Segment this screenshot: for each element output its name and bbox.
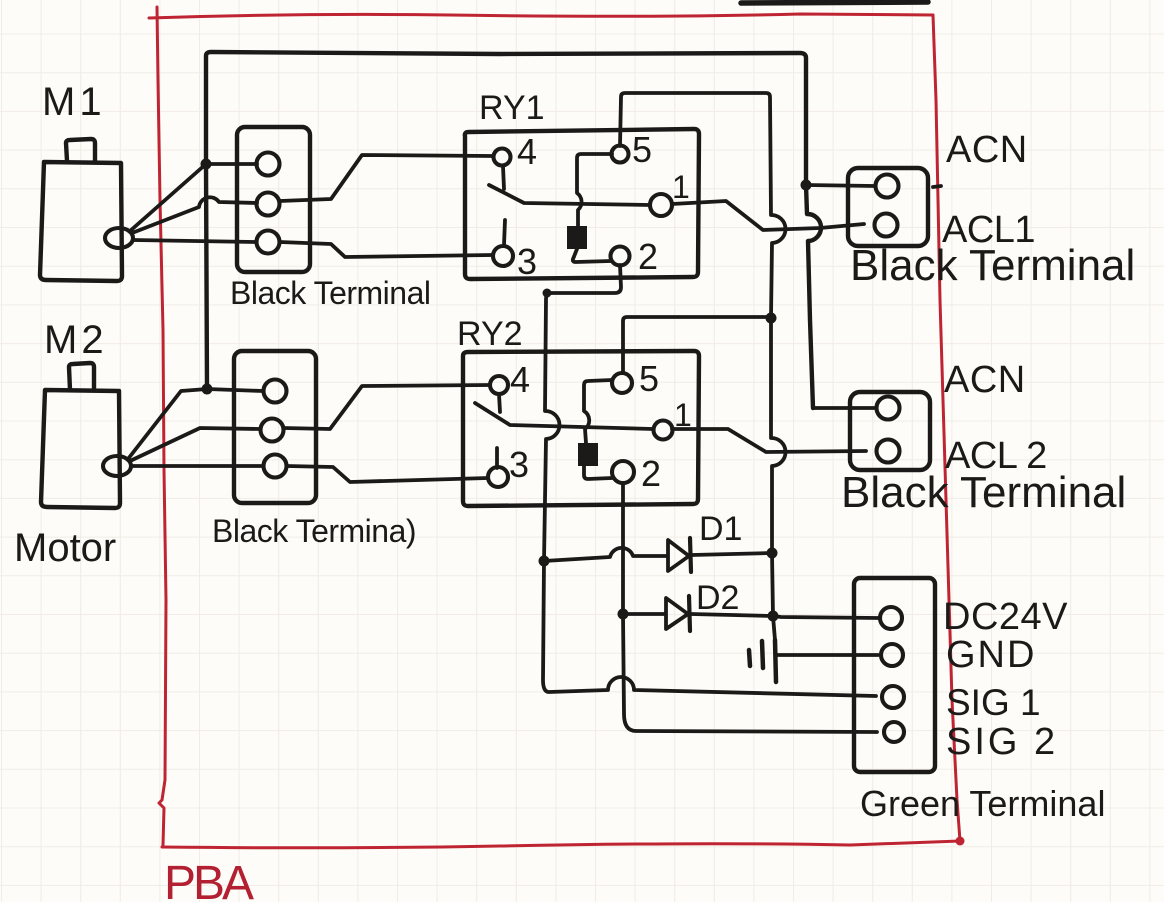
svg-text:D1: D1 bbox=[699, 510, 742, 548]
svg-text:4: 4 bbox=[517, 131, 537, 172]
svg-text:3: 3 bbox=[517, 241, 537, 282]
svg-text:Motor: Motor bbox=[14, 526, 116, 570]
svg-text:M2: M2 bbox=[44, 318, 108, 362]
svg-text:RY2: RY2 bbox=[457, 315, 523, 353]
svg-text:D2: D2 bbox=[696, 579, 739, 617]
svg-text:Green Terminal: Green Terminal bbox=[860, 783, 1105, 824]
svg-text:4: 4 bbox=[510, 359, 530, 400]
svg-text:ACN: ACN bbox=[946, 129, 1028, 171]
svg-text:1: 1 bbox=[672, 169, 690, 205]
svg-text:SIG 2: SIG 2 bbox=[946, 721, 1058, 763]
svg-text:2: 2 bbox=[641, 453, 661, 494]
svg-text:3: 3 bbox=[509, 444, 529, 485]
svg-text:DC24V: DC24V bbox=[943, 596, 1068, 638]
svg-text:ACN: ACN bbox=[944, 359, 1026, 401]
svg-text:Black Terminal: Black Terminal bbox=[230, 275, 430, 311]
svg-text:2: 2 bbox=[638, 236, 658, 277]
svg-text:5: 5 bbox=[632, 129, 652, 170]
svg-text:PBA: PBA bbox=[164, 857, 254, 902]
svg-text:RY1: RY1 bbox=[479, 89, 545, 127]
svg-text:SIG 1: SIG 1 bbox=[946, 682, 1041, 723]
svg-text:Black Terminal: Black Terminal bbox=[841, 468, 1126, 517]
svg-text:Black Termina): Black Termina) bbox=[212, 513, 416, 549]
svg-text:5: 5 bbox=[639, 358, 659, 399]
svg-text:GND: GND bbox=[946, 634, 1036, 676]
svg-text:M1: M1 bbox=[42, 80, 106, 124]
svg-text:Black Terminal: Black Terminal bbox=[850, 241, 1135, 290]
